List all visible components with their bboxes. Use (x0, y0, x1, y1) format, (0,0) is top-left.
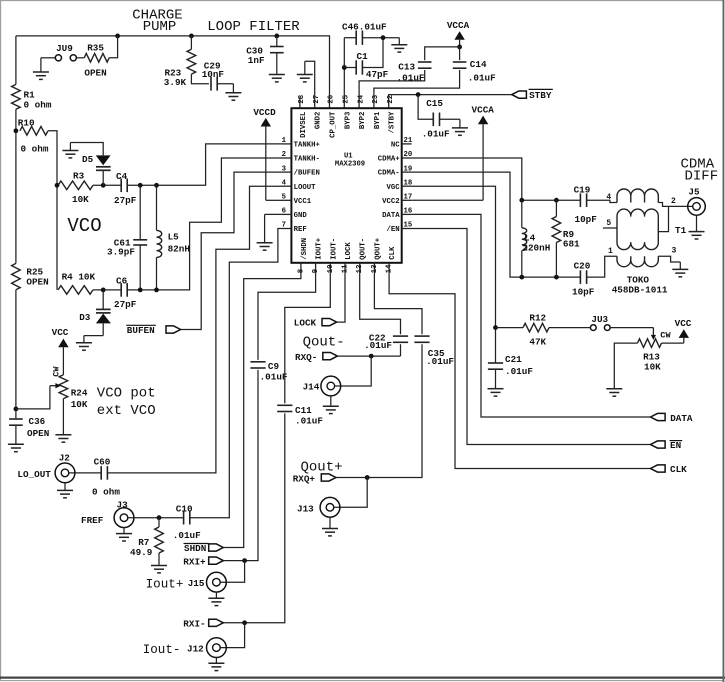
svg-text:3: 3 (672, 247, 677, 256)
resistor R12 (523, 323, 549, 332)
svg-text:Iout-: Iout- (143, 643, 181, 657)
potentiometer R13 (638, 339, 662, 348)
wire VCCD to pin 5 VCC1 (266, 199, 282, 201)
wire VCCA node to C13 (425, 47, 460, 60)
wire pin 16 DATA to flag (412, 214, 651, 417)
svg-text:GND: GND (294, 212, 308, 220)
svg-text:C10: C10 (176, 504, 193, 515)
svg-text:.01uF: .01uF (397, 73, 425, 84)
overbar STBY (529, 88, 553, 90)
ground at R24 (62, 399, 64, 435)
flag SHDN (209, 544, 224, 551)
svg-text:LOOP FILTER: LOOP FILTER (207, 19, 300, 35)
wire pin 12 QOUT- to C22 (360, 274, 401, 334)
svg-text:CDMA-: CDMA- (378, 170, 400, 178)
svg-text:R12: R12 (529, 313, 546, 324)
wire RXQ- net (337, 355, 400, 357)
wire rail to R23 (190, 36, 192, 49)
IC U1 top pins 28-22 stubs, numbers and names (299, 97, 301, 108)
wire pin 6 GND lead (265, 213, 282, 215)
power VCC left (58, 339, 68, 348)
svg-text:TANKH+: TANKH+ (294, 142, 321, 150)
svg-text:J5: J5 (688, 187, 700, 198)
svg-text:.01uF: .01uF (364, 340, 392, 351)
wire to J12 (220, 623, 244, 648)
resistor R4 (58, 286, 93, 295)
svg-text:J15: J15 (188, 578, 205, 589)
svg-text:VCCA: VCCA (447, 20, 470, 31)
svg-text:5: 5 (606, 219, 611, 228)
svg-text:13: 13 (371, 264, 379, 273)
wire C14 to pin 23 BYP1 (374, 70, 460, 97)
junction R12 C21 node (493, 325, 498, 330)
capacitor C61 (133, 239, 147, 241)
svg-text:R3: R3 (73, 170, 85, 181)
connector J14 (321, 376, 341, 396)
ground at JU9 (40, 58, 42, 72)
wire R35 to top rail (109, 36, 117, 58)
inductor L4 (522, 228, 527, 251)
capacitor C29 (210, 77, 212, 91)
junction C15 on STBY wire (416, 92, 421, 97)
junction R23 on top rail (189, 34, 194, 39)
wire R4 to C6 (93, 289, 121, 291)
svg-text:1: 1 (608, 247, 613, 256)
svg-text:.01uF: .01uF (173, 530, 201, 541)
connector J12 (207, 638, 227, 658)
wire C10 to J3 (128, 517, 184, 519)
svg-text:C36: C36 (29, 416, 46, 427)
flag CLK (651, 465, 666, 472)
capacitor C4 (120, 179, 122, 193)
connector J5 (688, 198, 706, 216)
flag BUFEN (166, 326, 181, 333)
svg-text:6: 6 (282, 208, 286, 216)
resistor R23 (187, 49, 196, 74)
svg-text:VGC: VGC (386, 184, 400, 192)
junction VCCA C13 C14 node (457, 45, 462, 50)
junction J13 drop (365, 475, 370, 480)
wire C35 to RXQ+ wire (336, 344, 422, 477)
overbar BUFEN (126, 324, 156, 326)
wire to J13 (334, 478, 367, 508)
svg-text:RXI-: RXI- (183, 619, 205, 630)
ground at D5 (69, 143, 71, 151)
wire C9 to RXI+ flag (223, 370, 258, 561)
svg-text:JU9: JU9 (56, 43, 73, 54)
svg-text:J2: J2 (59, 452, 71, 463)
svg-text:DATA: DATA (670, 413, 693, 424)
svg-text:LO_OUT: LO_OUT (17, 469, 51, 480)
wire pin 25 BYP3 riser to C1/C46 node (343, 38, 345, 97)
flag STBY (512, 91, 527, 98)
IC U1 bottom pins 8-14 stubs, numbers and names (300, 263, 302, 274)
svg-text:J3: J3 (117, 500, 129, 511)
ground at J14 (330, 396, 332, 406)
wire C61 bottom lead (139, 245, 141, 290)
svg-text:VCCD: VCCD (253, 107, 276, 118)
svg-text:VCC2: VCC2 (382, 198, 400, 206)
svg-text:FREF: FREF (81, 515, 104, 526)
wire C61 top lead (139, 185, 141, 240)
svg-text:R4 10K: R4 10K (62, 272, 96, 283)
wire pin 3 /BUFEN to BUFEN flag (181, 172, 282, 329)
svg-text:LOOUT: LOOUT (294, 184, 317, 192)
svg-text:10K: 10K (644, 361, 661, 372)
svg-text:IOUT-: IOUT- (330, 238, 338, 260)
junction R3 node (55, 183, 60, 188)
svg-text:VCC1: VCC1 (294, 198, 312, 206)
jumper JU9 (55, 55, 61, 61)
svg-text:C20: C20 (574, 261, 591, 272)
svg-text:ext VCO: ext VCO (97, 403, 156, 419)
IC U1 left pins 1-7 stubs, numbers and names (282, 143, 292, 145)
svg-text:10pF: 10pF (572, 286, 595, 297)
svg-text:BUFEN: BUFEN (127, 325, 155, 336)
svg-text:3.9pF: 3.9pF (107, 246, 135, 257)
wire C4 to pin 1 TANKH+ (127, 144, 281, 185)
svg-text:C9: C9 (268, 361, 280, 372)
svg-text:L5: L5 (168, 231, 180, 242)
resistor R9 (552, 217, 561, 243)
transformer T1 primary top winding (617, 189, 658, 203)
wire C15 left lead (418, 95, 433, 120)
wire C19 to T1 pin 4 (587, 200, 617, 202)
wire C1 right lead (362, 38, 383, 68)
svg-text:CW: CW (660, 331, 671, 341)
svg-text:CW: CW (52, 366, 62, 377)
wire JU3 to R13 wiper (610, 327, 653, 329)
svg-text:STBY: STBY (529, 90, 552, 101)
wire pin 18 VGC to R12 node (412, 186, 496, 363)
wire T1 secondary right to pin 2 node (658, 206, 668, 231)
overbar SHDN (184, 543, 209, 545)
svg-text:8: 8 (297, 269, 305, 273)
power VCCA mid (478, 116, 488, 125)
junction C61 bottom (138, 288, 143, 293)
wire to J14 (335, 356, 372, 386)
svg-text:/STBY: /STBY (389, 111, 397, 134)
transformer T1 bottom winding (617, 256, 658, 267)
wire VCCA node to C14 (459, 47, 461, 60)
svg-text:10pF: 10pF (575, 214, 598, 225)
capacitor C15 (432, 113, 434, 127)
wire T1 pin 5 stub (603, 227, 617, 229)
wire R7 top lead (158, 518, 160, 527)
resistor R35 (84, 54, 109, 63)
connector J13 (320, 497, 340, 517)
flag RXI+ (209, 557, 224, 564)
svg-text:.01uF: .01uF (505, 366, 533, 377)
svg-text:C1: C1 (357, 51, 369, 62)
svg-text:47pF: 47pF (366, 69, 389, 80)
svg-text:TANKH-: TANKH- (294, 156, 320, 164)
junction J15 drop (242, 558, 247, 563)
wire JU9 left lead (41, 57, 55, 59)
svg-text:JU3: JU3 (591, 314, 608, 325)
svg-text:SHDN: SHDN (184, 543, 206, 554)
svg-text:CDMA+: CDMA+ (378, 156, 401, 164)
capacitor C30 (270, 46, 284, 48)
junction L4 bottom (519, 275, 524, 280)
svg-text:16: 16 (404, 208, 413, 216)
ground at R13 (613, 388, 615, 390)
wire L4 top lead (521, 200, 523, 228)
capacitor C14 (453, 61, 467, 63)
svg-text:VCO pot: VCO pot (97, 385, 156, 401)
junction L4 top (519, 198, 524, 203)
svg-text:0 ohm: 0 ohm (24, 100, 52, 111)
svg-text:BYP3: BYP3 (344, 111, 352, 129)
wire R24 wiper to left rail (16, 386, 50, 409)
capacitor C46 (355, 31, 357, 45)
svg-text:CP_OUT: CP_OUT (330, 111, 338, 138)
svg-text:14: 14 (386, 264, 394, 273)
wire pin 8 /SHDN to SHDN flag (223, 274, 301, 548)
ground at J5 (696, 215, 698, 231)
svg-text:17: 17 (404, 194, 413, 202)
ground at GND2 (304, 61, 306, 74)
wire top node to C19 (522, 199, 580, 201)
svg-text:7: 7 (282, 222, 286, 230)
capacitor C35 (414, 335, 429, 337)
wire pin 15 /EN to flag (412, 229, 651, 445)
wire pin 9 IOUT+ to C9 (258, 274, 316, 360)
svg-text:BYP2: BYP2 (359, 112, 367, 130)
svg-text:PUMP: PUMP (143, 19, 177, 35)
svg-text:11: 11 (342, 264, 350, 273)
svg-text:C60: C60 (94, 457, 111, 468)
ground at J12 (215, 658, 217, 664)
svg-text:IOUT+: IOUT+ (316, 237, 324, 260)
svg-text:5: 5 (282, 194, 286, 202)
svg-text:D5: D5 (82, 154, 94, 165)
svg-text:DATA: DATA (382, 212, 400, 220)
ground at C29 (232, 84, 234, 93)
capacitor C60 (100, 466, 102, 480)
wire C20 to T1 pin 1 (587, 256, 617, 277)
wire D5 ground arm (70, 143, 103, 156)
wire node to R12 (496, 327, 524, 329)
svg-text:82nH: 82nH (168, 243, 190, 254)
junction R10 on left rail (14, 128, 19, 133)
wire left rail top (15, 36, 17, 85)
wire JU9 to R35 (76, 57, 84, 59)
wire R1 to R10 node (15, 109, 17, 263)
svg-text:Iout+: Iout+ (146, 578, 184, 592)
svg-text:28: 28 (298, 95, 306, 104)
svg-text:RXQ-: RXQ- (295, 352, 317, 363)
junction R9 bottom (554, 275, 559, 280)
svg-text:Qout-: Qout- (303, 334, 345, 350)
flag DATA (651, 413, 666, 420)
wire R13 right to VCC (662, 342, 684, 344)
wire R9 top lead (555, 200, 557, 216)
svg-text:3: 3 (282, 165, 287, 173)
capacitor C10 (183, 511, 185, 525)
capacitor C22 (393, 335, 408, 337)
ground at C46 (398, 38, 400, 45)
wire pin 17 VCC2 to VCCA (412, 199, 484, 201)
ground at D3 (83, 336, 85, 343)
svg-text:10K: 10K (72, 194, 89, 205)
svg-text:C14: C14 (470, 59, 487, 70)
svg-text:19: 19 (404, 165, 413, 173)
ground at C21 (495, 385, 497, 389)
wire R7 bottom lead (158, 553, 160, 561)
wire L5 top lead (156, 185, 158, 230)
capacitor C6 (120, 283, 122, 297)
svg-text:.01uF: .01uF (426, 356, 454, 367)
flag RXQ+ (321, 474, 336, 481)
svg-text:BYP1: BYP1 (374, 111, 382, 129)
wire C46 right lead to ground (362, 37, 399, 39)
svg-text:QOUT+: QOUT+ (374, 237, 382, 260)
junction wiper on left rail (14, 407, 19, 412)
svg-text:47K: 47K (529, 336, 546, 347)
connector J2 (55, 463, 75, 483)
connector J3 (114, 508, 134, 528)
svg-text:EN: EN (670, 440, 681, 451)
flag LOCK (322, 319, 337, 326)
wire C1 left lead (344, 67, 356, 69)
svg-text:20: 20 (404, 151, 413, 159)
overbar EN (670, 440, 683, 442)
svg-text:10K: 10K (71, 399, 88, 410)
wire R3 to C4 (93, 184, 121, 186)
svg-text:/SHDN: /SHDN (301, 238, 309, 260)
svg-text:R10: R10 (18, 118, 35, 129)
svg-text:.01uF: .01uF (422, 129, 450, 140)
resistor R3 (58, 181, 93, 190)
wire R23 to C29 (191, 74, 209, 84)
svg-text:C6: C6 (116, 276, 128, 287)
svg-text:/BUFEN: /BUFEN (294, 170, 320, 178)
capacitor C36 (9, 418, 23, 420)
wire bottom node to C20 (522, 276, 581, 278)
svg-text:21: 21 (404, 137, 413, 145)
wire C29 to ground (217, 83, 234, 85)
junction C61 top (138, 183, 143, 188)
svg-text:LOCK: LOCK (345, 242, 353, 260)
ground at C36 (15, 425, 17, 445)
svg-text:CLK: CLK (389, 246, 397, 260)
svg-text:J14: J14 (303, 381, 320, 392)
svg-text:R24: R24 (71, 387, 88, 398)
svg-text:C15: C15 (426, 98, 443, 109)
svg-text:3.9K: 3.9K (164, 77, 187, 88)
svg-text:220nH: 220nH (522, 242, 550, 253)
svg-text:12: 12 (356, 265, 364, 274)
flag RXQ- (323, 353, 338, 360)
svg-text:9: 9 (312, 269, 320, 273)
svg-text:0 ohm: 0 ohm (21, 144, 49, 155)
resistor R7 (155, 527, 164, 553)
svg-text:RXI+: RXI+ (183, 556, 206, 567)
IC U1 right pins 21-15 stubs, numbers and names (402, 143, 412, 145)
wire T1 pin 3 to ground (658, 256, 680, 262)
junction R9 top (554, 198, 559, 203)
power VCC right (679, 329, 689, 338)
svg-text:DIVSEL: DIVSEL (300, 112, 308, 138)
wire R12 to JU3 (549, 327, 590, 329)
wire pin 4 LOOUT to C60 (107, 186, 282, 473)
wire pin 19 CDMA- to tank bottom node (412, 172, 522, 277)
capacitor C20 (579, 270, 581, 284)
wire pin 13 QOUT+ to C35 (374, 274, 422, 334)
resistor R25 (12, 263, 21, 289)
svg-text:C13: C13 (398, 62, 415, 73)
svg-text:C46.01uF: C46.01uF (342, 21, 387, 32)
wire R13 left to ground (614, 343, 637, 389)
wire top rail from left rail to pin 26 CP_OUT (16, 36, 330, 97)
junction L5 bottom (154, 288, 159, 293)
svg-text:4: 4 (606, 193, 611, 202)
svg-text:C21: C21 (505, 354, 522, 365)
connector J15 (207, 572, 227, 592)
power VCCD (261, 118, 271, 127)
svg-text:GND2: GND2 (315, 112, 323, 130)
svg-text:C19: C19 (574, 184, 591, 195)
flag EN (651, 441, 666, 448)
svg-text:CLK: CLK (670, 464, 687, 475)
capacitor C19 (579, 193, 581, 207)
wire pin 22 /STBY to STBY flag (389, 95, 512, 98)
svg-text:R35: R35 (87, 43, 104, 54)
svg-text:.01uF: .01uF (468, 72, 496, 83)
svg-text:OPEN: OPEN (26, 277, 48, 288)
capacitor C9 (250, 361, 265, 363)
power VCCA top (454, 31, 464, 40)
resistor R1 (12, 84, 21, 109)
wire pin 27 GND2 to ground (305, 61, 315, 97)
svg-text:2: 2 (671, 197, 676, 206)
wire D3 to ground (84, 335, 103, 337)
wire pin 11 LOCK to flag (337, 274, 345, 322)
svg-text:.01uF: .01uF (295, 416, 323, 427)
wire C21 to ground (495, 369, 497, 385)
svg-text:458DB-1011: 458DB-1011 (612, 284, 668, 295)
svg-text:2: 2 (282, 151, 286, 159)
junction C1 left node (342, 65, 347, 70)
junction L5 top (154, 183, 159, 188)
svg-text:MAX2309: MAX2309 (335, 160, 365, 168)
svg-text:Qout+: Qout+ (301, 459, 343, 475)
svg-text:J13: J13 (297, 503, 314, 514)
svg-text:18: 18 (404, 179, 413, 187)
flag RXI- (209, 619, 224, 626)
junction R7 node (157, 515, 162, 520)
svg-text:VCC: VCC (52, 327, 69, 338)
junction J12 drop (242, 620, 247, 625)
capacitor C1 (355, 60, 357, 74)
wire L4 bottom lead (521, 251, 523, 278)
svg-text:NC: NC (391, 142, 400, 150)
resistor R10 (20, 127, 48, 136)
ground at C15 (459, 119, 461, 128)
junction D3 node (101, 288, 106, 293)
wire T1 pin 2 to J5 (658, 203, 692, 207)
junction J14 drop (369, 354, 374, 359)
junction D5 node (101, 183, 106, 188)
wire pin 20 CDMA+ to tank top node (412, 158, 522, 200)
wire L5 bottom lead (156, 257, 158, 290)
svg-text:REF: REF (294, 226, 307, 234)
svg-text:LOCK: LOCK (294, 318, 317, 329)
wire C46 left lead (344, 37, 356, 39)
wire to J15 (220, 561, 244, 583)
svg-text:1: 1 (282, 137, 287, 145)
